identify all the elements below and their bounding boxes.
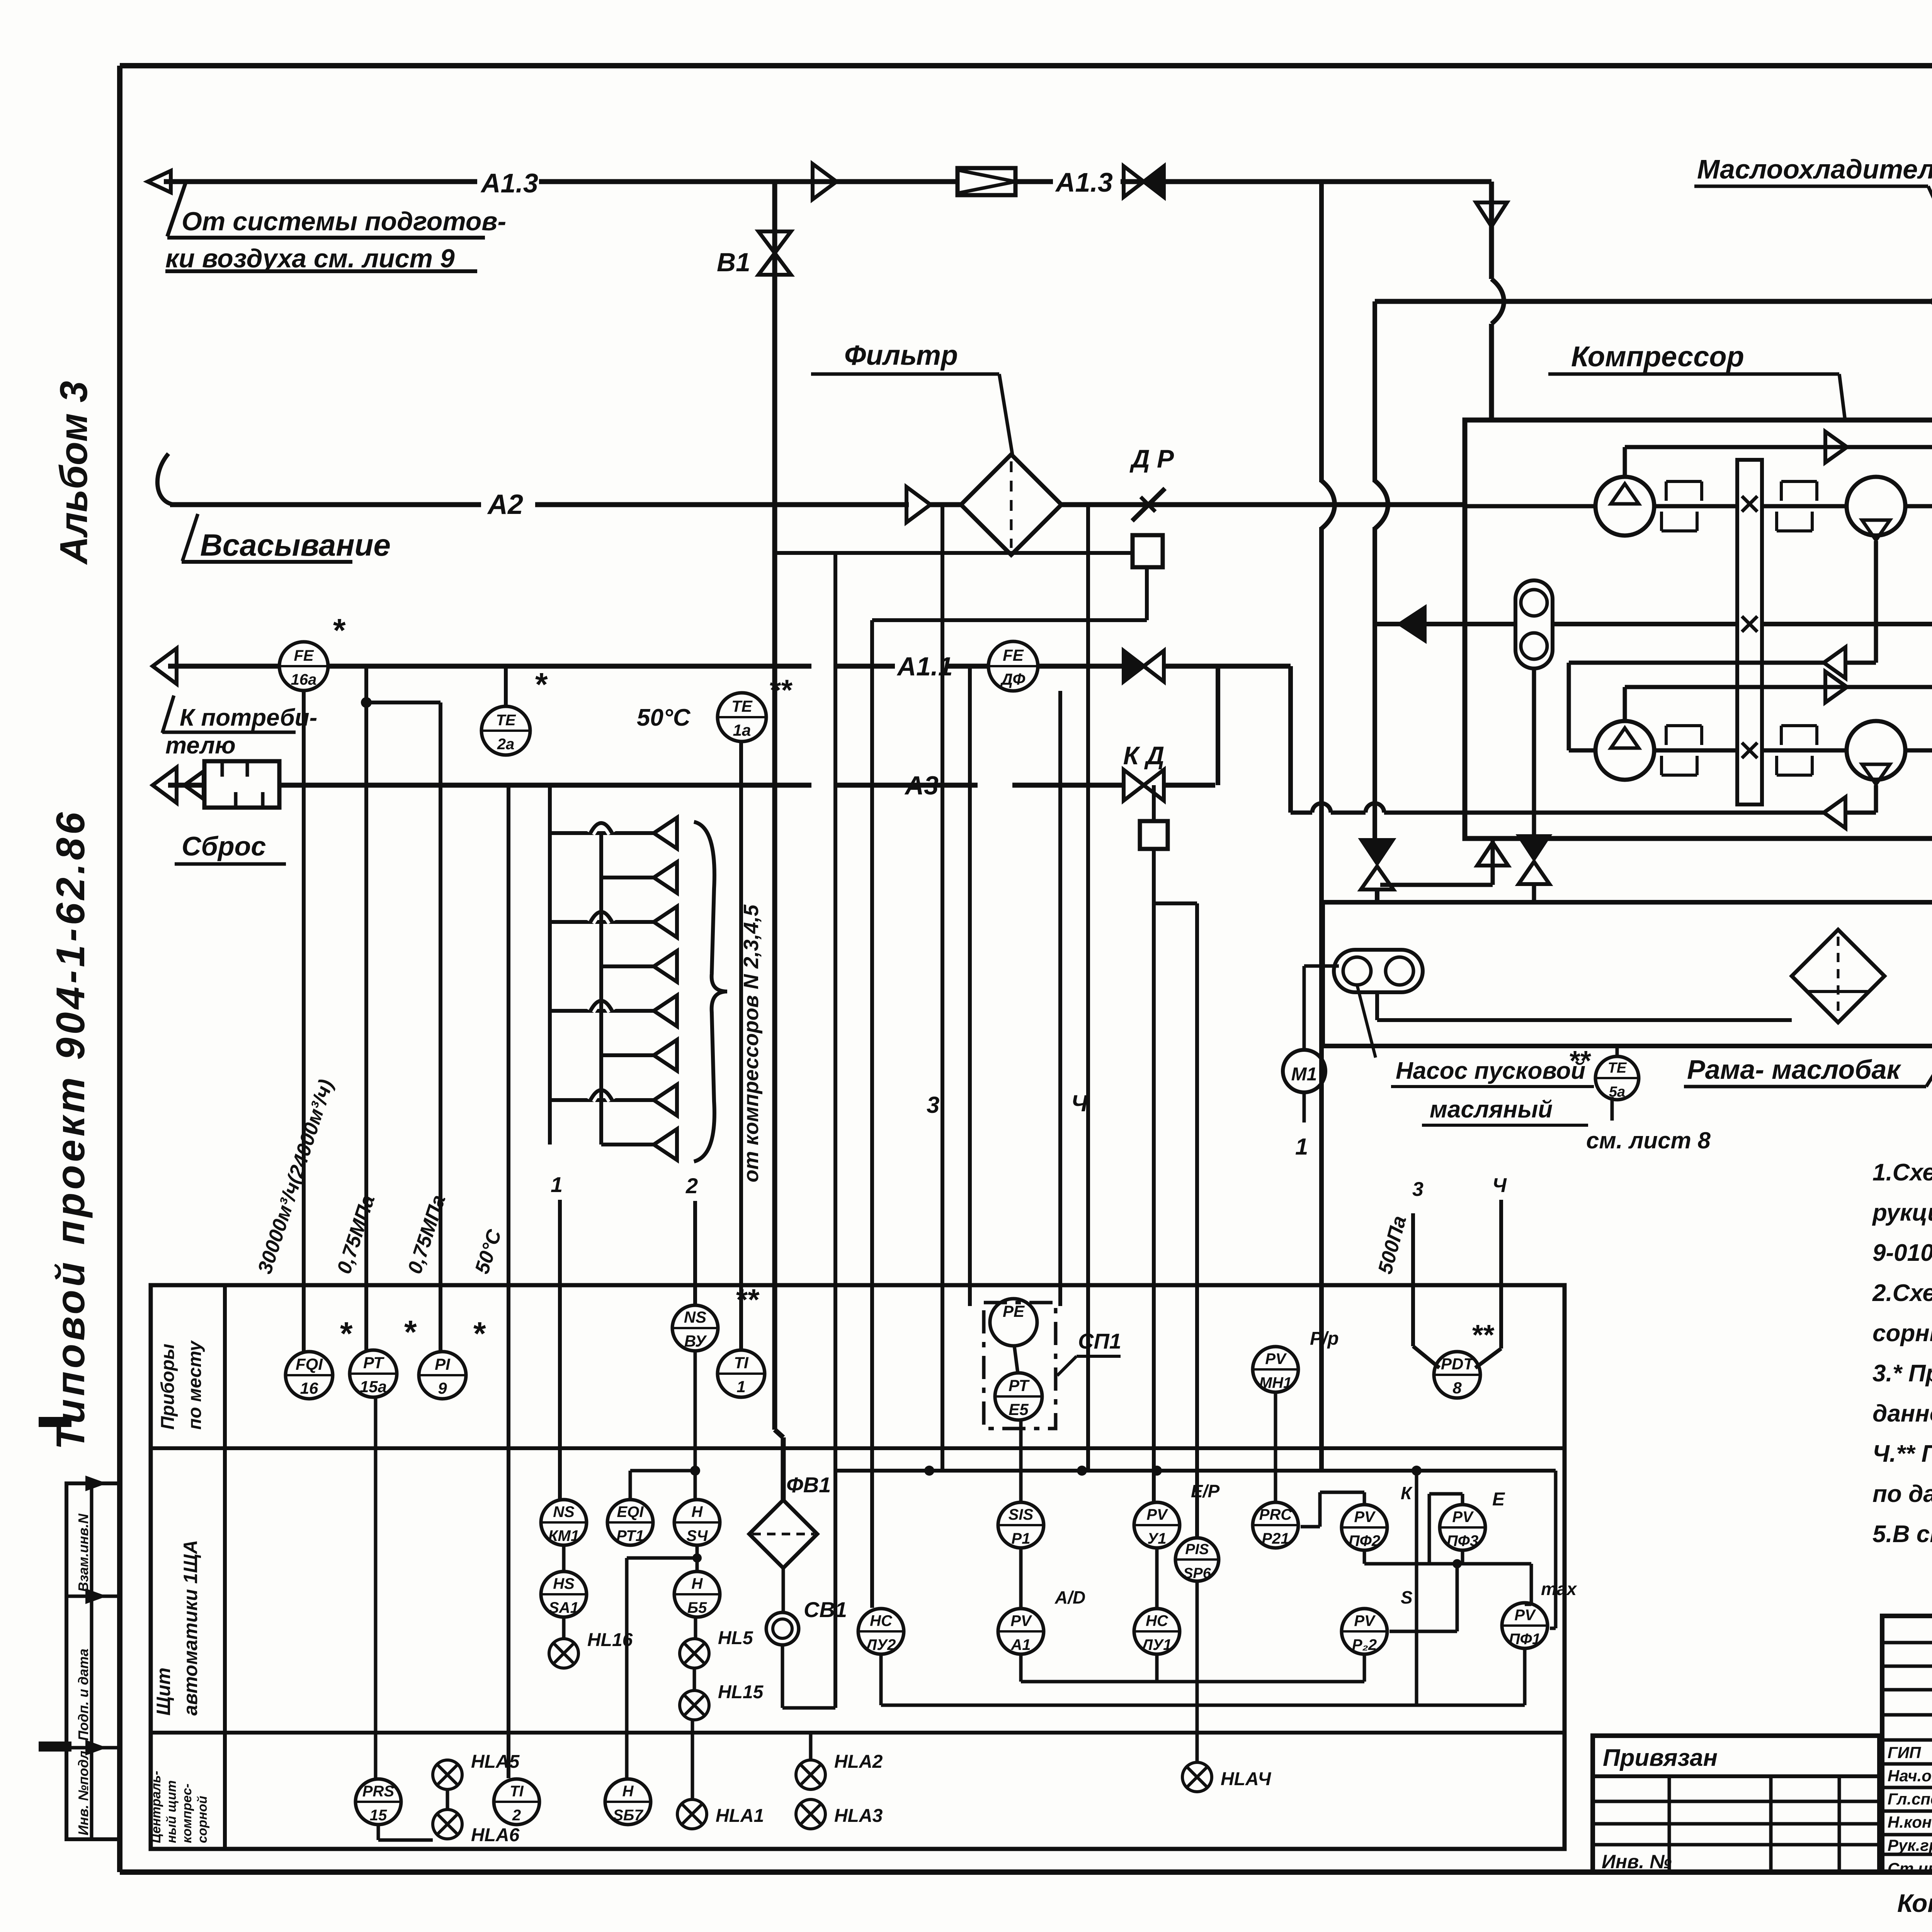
shaft bar bbox=[1737, 460, 1762, 804]
svg-text:2.Схема выполнена для компресс: 2.Схема выполнена для компрессорного агр… bbox=[1872, 1280, 1932, 1306]
oil pipe bbox=[1375, 299, 1932, 304]
svg-text:МН1: МН1 bbox=[1259, 1374, 1292, 1391]
TI 1 bubble bbox=[718, 1350, 765, 1397]
svg-text:А2: А2 bbox=[487, 489, 523, 520]
svg-text:данному проекту.: данному проекту. bbox=[1872, 1400, 1932, 1427]
svg-text:Всасывание: Всасывание bbox=[200, 528, 391, 562]
svg-text:ДФ: ДФ bbox=[1000, 670, 1026, 688]
wire 2 stub bbox=[693, 1201, 697, 1305]
svg-text:РV: РV bbox=[1354, 1612, 1376, 1629]
wire TI1 down bbox=[739, 742, 743, 1350]
svg-text:3: 3 bbox=[927, 1092, 939, 1118]
motor line bbox=[1376, 622, 1515, 626]
pipe A1.1 bbox=[168, 664, 280, 669]
wire 4b stub bbox=[1499, 1200, 1503, 1349]
coupling s1 left bbox=[1665, 481, 1668, 501]
svg-text:16: 16 bbox=[300, 1379, 318, 1397]
svg-text:ЛУ2: ЛУ2 bbox=[865, 1636, 896, 1653]
wire SIS-PVA1 bbox=[1019, 1548, 1023, 1609]
shaft cross 2 bbox=[1742, 616, 1757, 632]
wire A1.1 drop to discharge bbox=[1209, 664, 1291, 669]
discharge st2 bbox=[1874, 785, 1878, 813]
wire PF1 right bbox=[1550, 1627, 1556, 1630]
svg-text:ТI: ТI bbox=[734, 1354, 749, 1372]
wire MH1-PRC bbox=[1274, 1393, 1277, 1502]
label to consumer bbox=[162, 696, 174, 733]
svg-text:СП1: СП1 bbox=[1078, 1329, 1121, 1353]
cylinder 1 stage2 bbox=[1595, 721, 1654, 780]
oil pipe under box bbox=[1380, 883, 1493, 887]
svg-text:РЕ: РЕ bbox=[1003, 1302, 1025, 1320]
svg-text:NS: NS bbox=[684, 1308, 706, 1326]
svg-text:А/D: А/D bbox=[1054, 1587, 1085, 1607]
PV PF2 bubble bbox=[1342, 1505, 1387, 1550]
svg-text:Типовой проект 904-1-62.86: Типовой проект 904-1-62.86 bbox=[48, 809, 93, 1450]
svg-text:Д Р: Д Р bbox=[1129, 444, 1174, 473]
svg-text:HLА6: HLА6 bbox=[471, 1825, 520, 1845]
flow arrow A1.3 bbox=[813, 164, 837, 199]
svg-text:S: S bbox=[1401, 1587, 1413, 1607]
svg-text:50°С: 50°С bbox=[637, 704, 691, 731]
svg-text:РV: РV bbox=[1265, 1350, 1287, 1367]
privyazan box bbox=[1593, 1736, 1879, 1872]
wire U1-LU1 bbox=[1155, 1548, 1159, 1609]
HLA3 lamp bbox=[796, 1799, 825, 1829]
HLA4 lamp bbox=[1182, 1762, 1212, 1792]
wire NSLU2 bbox=[879, 1654, 883, 1705]
svg-text:**: ** bbox=[1472, 1319, 1495, 1351]
motor M1 bbox=[1283, 1050, 1325, 1092]
wire SB7 top bbox=[696, 1545, 699, 1558]
EQI PT1 bubble bbox=[607, 1500, 653, 1545]
svg-text:Подп. и дата: Подп. и дата bbox=[75, 1649, 91, 1741]
svg-text:HLА5: HLА5 bbox=[471, 1752, 520, 1772]
wire PF1 bottom bbox=[1523, 1648, 1527, 1705]
wire SV1 loop bbox=[781, 1645, 784, 1708]
arrow down into compressor bbox=[1476, 202, 1507, 226]
svg-text:ный щит: ный щит bbox=[164, 1780, 179, 1843]
svg-text:*: * bbox=[535, 666, 548, 702]
svg-text:Взам.инв.N: Взам.инв.N bbox=[75, 1513, 91, 1592]
TE 5a bubble bbox=[1595, 1056, 1639, 1100]
oil suction stem bbox=[1532, 668, 1536, 835]
brace from compressors bbox=[694, 822, 727, 1162]
svg-text:ГИП: ГИП bbox=[1888, 1743, 1921, 1762]
svg-text:РV: РV bbox=[1354, 1509, 1376, 1526]
piston line st2 bbox=[1569, 748, 1595, 753]
svg-text:3: 3 bbox=[1412, 1178, 1423, 1201]
svg-text:FЕ: FЕ bbox=[1003, 646, 1024, 664]
H S4 bubble bbox=[674, 1500, 720, 1545]
wire PTE5-SIS bbox=[1019, 1420, 1023, 1502]
wire into tank left bbox=[1375, 889, 1379, 904]
svg-text:Ч: Ч bbox=[1071, 1090, 1088, 1116]
wire FE16a down bbox=[302, 690, 306, 1352]
loop st2 top bbox=[1623, 687, 1627, 720]
svg-text:У1: У1 bbox=[1147, 1530, 1166, 1547]
svg-text:Е5: Е5 bbox=[1009, 1400, 1029, 1418]
svg-text:см. лист 8: см. лист 8 bbox=[1586, 1128, 1711, 1153]
svg-text:9: 9 bbox=[438, 1379, 447, 1397]
staff grid bbox=[1882, 1616, 1932, 1872]
svg-text:5.В скобках указаны параметры: 5.В скобках указаны параметры для Ч маши… bbox=[1872, 1521, 1932, 1548]
svg-text:15: 15 bbox=[370, 1807, 387, 1824]
NS VU bubble bbox=[672, 1305, 718, 1351]
SP1 dashdot box bbox=[984, 1303, 1056, 1429]
damper DR bbox=[1132, 488, 1165, 521]
wire TI2 50C down bbox=[507, 785, 510, 1778]
svg-text:автоматики 1ЩА: автоматики 1ЩА bbox=[180, 1540, 201, 1716]
HL5 lamp bbox=[680, 1639, 709, 1668]
svg-text:Ч: Ч bbox=[1492, 1174, 1507, 1197]
NSLU2 bubble bbox=[858, 1609, 904, 1654]
valve A1.1 fill-left bbox=[1124, 651, 1144, 682]
svg-text:ТЕ: ТЕ bbox=[731, 697, 753, 715]
svg-text:А3: А3 bbox=[904, 771, 939, 800]
instrument table frame bbox=[151, 1285, 1565, 1849]
svg-text:РIS: РIS bbox=[1185, 1541, 1209, 1558]
valve KD bbox=[1124, 770, 1144, 801]
tank rama-maslobak bbox=[1323, 902, 1932, 1046]
flag from air system bbox=[167, 183, 185, 236]
svg-text:РRS: РRS bbox=[362, 1783, 395, 1800]
wire PE-PTE5 bbox=[1014, 1346, 1018, 1373]
svg-text:РV: РV bbox=[1010, 1612, 1032, 1629]
svg-text:HLА1: HLА1 bbox=[716, 1806, 764, 1826]
wire HLA2 feed bbox=[809, 1733, 813, 1760]
svg-text:2: 2 bbox=[685, 1173, 698, 1198]
wire cooler feed left bbox=[1372, 301, 1377, 482]
svg-text:А1.3: А1.3 bbox=[1055, 167, 1113, 197]
flag suction bbox=[182, 514, 198, 561]
wire M1 bbox=[1303, 966, 1306, 1050]
svg-text:НS: НS bbox=[553, 1575, 575, 1592]
svg-text:9-010-8Ч Казанского компрессо: 9-010-8Ч Казанского компрессорного завод… bbox=[1872, 1240, 1932, 1266]
wire KD down bbox=[1152, 785, 1156, 821]
wire A1.3 corner down to compressor bbox=[1489, 182, 1494, 279]
interstage drop bbox=[1874, 541, 1878, 663]
wire bypass branch down bbox=[833, 553, 837, 1708]
HL16 lamp bbox=[549, 1639, 578, 1668]
svg-text:*: * bbox=[333, 612, 346, 648]
wire PE box feed bbox=[968, 666, 972, 1306]
coupling s1 right bbox=[1780, 481, 1783, 501]
hop jog vertical 3420 over A2 bbox=[1321, 481, 1335, 529]
svg-text:HL15: HL15 bbox=[718, 1682, 764, 1702]
svg-text:SЧ: SЧ bbox=[687, 1527, 708, 1544]
svg-text:Н: Н bbox=[692, 1575, 703, 1592]
svg-text:Нач.отд.: Нач.отд. bbox=[1888, 1767, 1932, 1785]
valve oil left bbox=[1360, 839, 1394, 865]
svg-text:FQI: FQI bbox=[296, 1355, 323, 1374]
DR positioner square bbox=[1133, 535, 1163, 567]
svg-text:ПФ3: ПФ3 bbox=[1447, 1532, 1478, 1549]
arrow motor line bbox=[1398, 606, 1425, 642]
cylinder 2 stage1 bbox=[1847, 477, 1905, 536]
wire HL5-HL15 bbox=[693, 1668, 696, 1690]
svg-text:Маслоохладитель: Маслоохладитель bbox=[1697, 154, 1932, 184]
NS KM1 bubble bbox=[541, 1500, 587, 1545]
svg-text:HL5: HL5 bbox=[718, 1628, 753, 1648]
wire EQI top bbox=[629, 1471, 632, 1500]
svg-text:А1: А1 bbox=[1010, 1636, 1031, 1653]
svg-text:РV: РV bbox=[1452, 1509, 1474, 1526]
svg-text:Ст.инж: Ст.инж bbox=[1888, 1859, 1932, 1878]
PRC P21 bubble bbox=[1253, 1502, 1298, 1548]
svg-text:Рук.гр.: Рук.гр. bbox=[1888, 1836, 1932, 1854]
svg-text:Рама- маслобак: Рама- маслобак bbox=[1687, 1054, 1901, 1085]
svg-text:масляный: масляный bbox=[1430, 1096, 1553, 1123]
wire DR bypass bbox=[775, 551, 1133, 555]
svg-text:2а: 2а bbox=[497, 736, 515, 753]
SIS P1 bubble bbox=[998, 1502, 1044, 1548]
check valve A1.3 bbox=[957, 168, 1015, 195]
svg-text:Приборы: Приборы bbox=[158, 1344, 178, 1430]
FV1 diamond bbox=[749, 1500, 817, 1568]
PT 15a bubble bbox=[350, 1350, 397, 1397]
svg-text:Централь-: Централь- bbox=[149, 1771, 163, 1843]
svg-text:Н: Н bbox=[692, 1503, 703, 1520]
HLA2 lamp bbox=[796, 1760, 825, 1789]
arrow A1.3 start bbox=[148, 171, 171, 192]
wire PRS-HLA6 bbox=[377, 1825, 380, 1840]
svg-text:Н.контр.: Н.контр. bbox=[1888, 1813, 1932, 1831]
PIS SP6 bubble bbox=[1175, 1538, 1219, 1581]
svg-text:рукции по эксплуатации 0.002.7: рукции по эксплуатации 0.002.769 и черте… bbox=[1872, 1199, 1932, 1226]
svg-text:ПФ1: ПФ1 bbox=[1509, 1631, 1541, 1648]
wire HL15 down bbox=[691, 1720, 694, 1799]
compressor box bbox=[1465, 420, 1932, 838]
svg-text:компрес-: компрес- bbox=[180, 1784, 194, 1843]
svg-text:SБ7: SБ7 bbox=[613, 1807, 643, 1824]
PE bubble bbox=[990, 1299, 1037, 1346]
cylinder 1 stage1 bbox=[1595, 477, 1654, 536]
svg-text:HLА2: HLА2 bbox=[834, 1752, 883, 1772]
svg-text:3.* Приборы- общие для компрес: 3.* Приборы- общие для компрессорной ста… bbox=[1872, 1360, 1932, 1387]
svg-text:КМ1: КМ1 bbox=[548, 1527, 579, 1544]
PDT 8 bubble bbox=[1434, 1352, 1480, 1398]
KD positioner square bbox=[1140, 821, 1168, 849]
coupling s2 right bbox=[1780, 726, 1783, 745]
wire PI9 down bbox=[366, 701, 440, 704]
svg-text:НС: НС bbox=[1146, 1612, 1168, 1629]
svg-text:16а: 16а bbox=[291, 671, 317, 688]
wire HLA5-HLA6 bbox=[446, 1789, 449, 1810]
svg-text:по данному проекту.: по данному проекту. bbox=[1872, 1481, 1932, 1507]
svg-text:Альбом 3: Альбом 3 bbox=[52, 381, 95, 565]
svg-text:HLАЧ: HLАЧ bbox=[1221, 1769, 1271, 1789]
coupling s2 left bbox=[1665, 726, 1668, 745]
svg-text:SIS: SIS bbox=[1009, 1506, 1034, 1523]
svg-text:К потреби-: К потреби- bbox=[180, 704, 317, 731]
svg-text:ТЕ: ТЕ bbox=[496, 712, 516, 729]
svg-text:сорных агрегатов NN2,3,Ч,5 схе: сорных агрегатов NN2,3,Ч,5 схема аналоги… bbox=[1872, 1320, 1932, 1347]
svg-text:Гл.спец.: Гл.спец. bbox=[1888, 1790, 1932, 1808]
svg-text:Щит: Щит bbox=[153, 1668, 174, 1716]
hollow arrow up under box bbox=[1491, 838, 1495, 885]
PV P22 bubble bbox=[1342, 1609, 1387, 1654]
HS SA1 bubble bbox=[541, 1571, 587, 1617]
HLA1 lamp bbox=[677, 1799, 707, 1829]
PV PF3 bubble bbox=[1440, 1505, 1485, 1550]
FE 16a bubble bbox=[279, 642, 328, 690]
SV1 ring bbox=[766, 1612, 799, 1645]
svg-text:8: 8 bbox=[1452, 1379, 1462, 1397]
wire A13 under box bbox=[1319, 182, 1324, 482]
wire 3 col bbox=[940, 505, 944, 1471]
svg-text:РТ: РТ bbox=[1009, 1376, 1030, 1395]
svg-text:ЛУ1: ЛУ1 bbox=[1141, 1636, 1172, 1653]
svg-text:Компрессор: Компрессор bbox=[1571, 340, 1744, 372]
oil gauge oval bbox=[1515, 580, 1553, 668]
PV U1 bubble bbox=[1134, 1502, 1180, 1548]
TI 2 bubble bbox=[494, 1779, 539, 1825]
svg-text:ВУ: ВУ bbox=[684, 1332, 707, 1350]
NSLU1 bubble bbox=[1134, 1609, 1180, 1654]
wire 1 stub bbox=[558, 1200, 562, 1499]
FE DF bubble bbox=[988, 641, 1038, 691]
svg-text:Р/р: Р/р bbox=[1310, 1328, 1339, 1349]
label start pump bbox=[1357, 985, 1376, 1058]
pipe A2 bbox=[170, 502, 481, 507]
svg-text:SА1: SА1 bbox=[549, 1599, 579, 1616]
PV MH1 bubble bbox=[1253, 1347, 1298, 1392]
wire FV1-SV1 bbox=[782, 1568, 785, 1612]
svg-text:1а: 1а bbox=[733, 721, 751, 739]
svg-text:Инв. №подл.: Инв. №подл. bbox=[75, 1747, 91, 1835]
svg-text:ФВ1: ФВ1 bbox=[786, 1473, 831, 1497]
svg-text:NS: NS bbox=[553, 1503, 575, 1520]
svg-text:СВ1: СВ1 bbox=[804, 1597, 847, 1622]
oil start pump bbox=[1334, 950, 1423, 992]
svg-text:по месту: по месту bbox=[185, 1340, 205, 1430]
svg-text:*: * bbox=[340, 1315, 353, 1352]
svg-text:Привязан: Привязан bbox=[1603, 1745, 1718, 1771]
HL15 lamp bbox=[680, 1690, 709, 1720]
wire B1 drop bbox=[772, 182, 777, 1430]
filter diamond on A2 bbox=[961, 454, 1061, 555]
wire DR positioner drop bbox=[1145, 567, 1149, 620]
svg-text:Р1: Р1 bbox=[1012, 1530, 1031, 1547]
wire H chain bbox=[696, 1558, 699, 1571]
svg-text:РDТ: РDТ bbox=[1441, 1355, 1475, 1373]
svg-text:2: 2 bbox=[512, 1807, 521, 1824]
wires from compressors N2345 bbox=[550, 831, 654, 835]
svg-text:М1: М1 bbox=[1291, 1064, 1317, 1085]
svg-text:**: ** bbox=[736, 1282, 760, 1316]
svg-text:Б5: Б5 bbox=[687, 1599, 707, 1616]
svg-text:ТЕ: ТЕ bbox=[1608, 1060, 1627, 1076]
FQI 16 bubble bbox=[286, 1352, 333, 1399]
svg-text:*: * bbox=[404, 1314, 417, 1350]
svg-text:Инв. №: Инв. № bbox=[1602, 1851, 1672, 1872]
svg-text:Н: Н bbox=[622, 1783, 634, 1800]
shaft cross 1 bbox=[1742, 496, 1757, 512]
svg-text:телю: телю bbox=[165, 732, 236, 759]
wire 500Pa stub bbox=[1411, 1213, 1415, 1346]
svg-text:РRС: РRС bbox=[1259, 1506, 1293, 1523]
valve A1.3 fill-right bbox=[1124, 166, 1144, 197]
svg-text:**: ** bbox=[770, 674, 793, 707]
TE 1a bubble bbox=[718, 693, 766, 742]
tank inner pipe bbox=[1375, 954, 1379, 1020]
arrow sbros bbox=[153, 767, 177, 803]
arrow to consumer bbox=[153, 648, 177, 684]
cylinder 2 stage2 bbox=[1847, 721, 1905, 780]
valve B1 bbox=[759, 231, 791, 253]
wire PF2 bottom zigzag bbox=[1363, 1550, 1366, 1564]
svg-text:ки воздуха см. лист 9: ки воздуха см. лист 9 bbox=[165, 244, 455, 273]
TE 2a bubble bbox=[481, 706, 530, 755]
HLA5 lamp bbox=[433, 1760, 462, 1789]
wire PF1 top bbox=[1530, 1564, 1533, 1604]
svg-text:РI: РI bbox=[435, 1355, 451, 1373]
svg-text:Е: Е bbox=[1492, 1489, 1505, 1510]
svg-text:**: ** bbox=[1570, 1046, 1591, 1077]
wire A1.1 link to A3 bbox=[1216, 666, 1220, 785]
PT E5 bubble bbox=[995, 1373, 1042, 1420]
suction loop st1 bbox=[1623, 447, 1627, 477]
svg-text:SР6: SР6 bbox=[1183, 1565, 1211, 1582]
hop jog vertical 3860 over oil line bbox=[1492, 279, 1504, 324]
PV PF1 bubble bbox=[1502, 1603, 1548, 1648]
svg-text:1: 1 bbox=[736, 1378, 745, 1396]
flow arrow A2 bbox=[906, 487, 930, 522]
fold mark ticks left edge bbox=[39, 1417, 71, 1427]
sidebar stamp column bbox=[66, 1483, 120, 1839]
svg-text:*: * bbox=[473, 1315, 486, 1352]
PV A1 bubble bbox=[998, 1609, 1044, 1654]
svg-text:ПФ2: ПФ2 bbox=[1349, 1532, 1380, 1549]
svg-text:РV: РV bbox=[1146, 1506, 1168, 1523]
pipe A3 bbox=[168, 783, 204, 788]
svg-text:Фильтр: Фильтр bbox=[844, 340, 958, 371]
bus from compressors bbox=[548, 786, 552, 1145]
wire P22 right bbox=[1389, 1630, 1457, 1633]
hop jog vertical 3558 over A2 bbox=[1375, 481, 1388, 529]
svg-text:FE: FE bbox=[294, 647, 314, 664]
pipe A1.3 bbox=[164, 179, 477, 184]
PI 9 bubble bbox=[419, 1352, 466, 1399]
svg-text:РТ: РТ bbox=[363, 1354, 384, 1372]
wire PIS down bbox=[1196, 1582, 1199, 1762]
flag sbros bbox=[184, 771, 204, 799]
svg-text:Насос пусковой: Насос пусковой bbox=[1396, 1058, 1585, 1084]
oil cooler diamond bbox=[1932, 253, 1932, 350]
wire FE DF down bbox=[1058, 691, 1062, 1306]
svg-text:сорной: сорной bbox=[195, 1796, 210, 1843]
svg-text:РV: РV bbox=[1514, 1607, 1536, 1624]
wire PT15a down bbox=[364, 666, 368, 1350]
H B5 bubble bbox=[674, 1571, 720, 1617]
svg-text:Е/Р: Е/Р bbox=[1191, 1481, 1219, 1501]
H SB7 bubble bbox=[605, 1779, 651, 1825]
sbros separator box bbox=[204, 761, 279, 808]
svg-text:HLА3: HLА3 bbox=[834, 1806, 883, 1826]
svg-text:К Д: К Д bbox=[1123, 741, 1165, 770]
wire NS chain bbox=[562, 1545, 566, 1571]
svg-text:Сброс: Сброс bbox=[182, 831, 266, 861]
svg-text:15а: 15а bbox=[360, 1378, 387, 1396]
svg-text:К: К bbox=[1401, 1483, 1413, 1503]
svg-text:А1.3: А1.3 bbox=[480, 168, 538, 198]
wire PRS top bbox=[374, 1397, 378, 1779]
svg-text:1: 1 bbox=[1295, 1134, 1308, 1160]
svg-text:НС: НС bbox=[870, 1612, 893, 1629]
svg-text:Р₂2: Р₂2 bbox=[1352, 1636, 1377, 1653]
PRS 15 bubble bbox=[355, 1779, 401, 1825]
svg-text:1.Схема выполнена на основании: 1.Схема выполнена на основании техническ… bbox=[1872, 1159, 1932, 1186]
